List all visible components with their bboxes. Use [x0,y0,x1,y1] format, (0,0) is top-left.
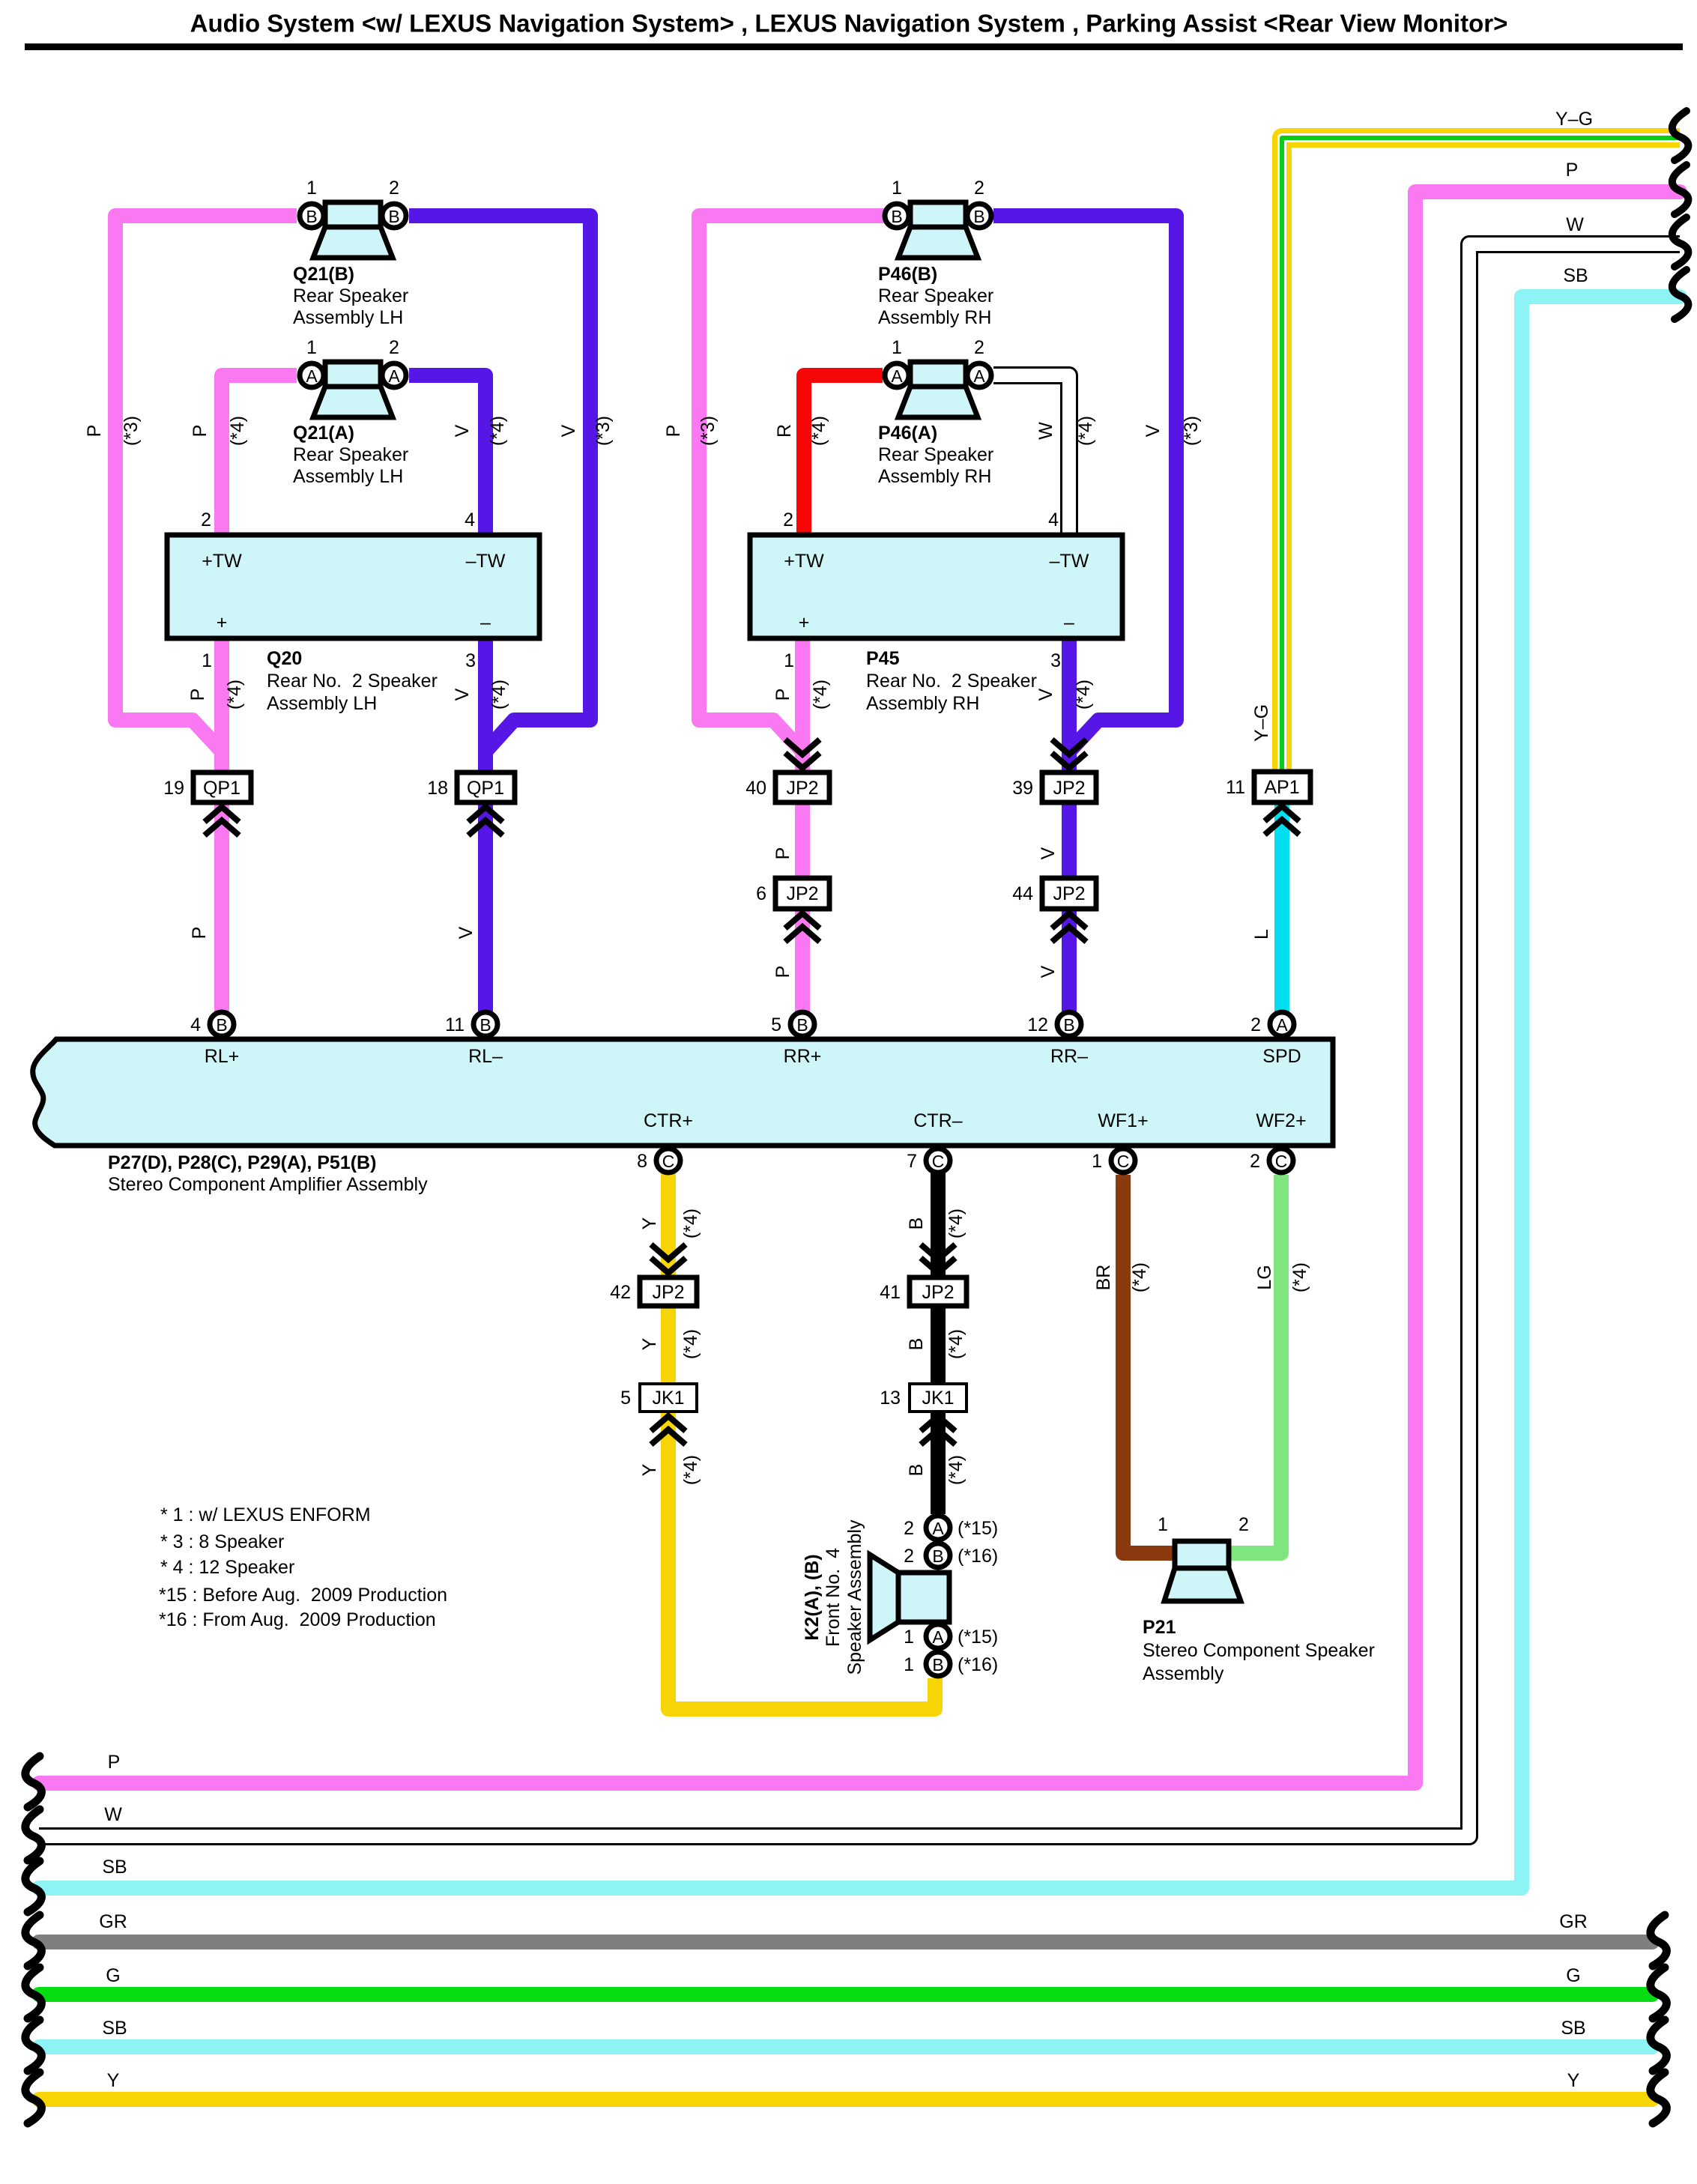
svg-text:JP2: JP2 [786,778,818,799]
svg-text:A: A [1276,1015,1288,1035]
svg-text:L: L [1251,929,1272,940]
svg-text:B: B [306,207,317,226]
svg-text:A: A [973,366,985,386]
svg-text:B: B [216,1015,227,1035]
svg-text:4: 4 [1048,509,1059,530]
wire V Q21(B) to QP1 merge [409,216,590,751]
amp pin 5 RR+ [790,1012,814,1036]
component Q20 Rear No.2 Speaker Assembly LH [167,535,539,638]
svg-text:A: A [306,366,318,386]
connector 5 JK1 (JK1-5) [640,1384,697,1412]
svg-text:Audio System <w/ LEXUS Navigat: Audio System <w/ LEXUS Navigation System… [190,10,1508,37]
svg-text:–: – [1064,612,1074,633]
svg-text:7: 7 [907,1151,917,1172]
break symbol SB left edge [25,2020,42,2071]
svg-text:* 4 : 12 Speaker: * 4 : 12 Speaker [160,1557,294,1578]
wire Y-G top (yellow-green) [1282,138,1680,771]
wire Y bus [39,2092,1652,2107]
svg-text:2: 2 [904,1546,914,1567]
svg-text:Y: Y [107,2070,120,2091]
svg-text:Q21(B): Q21(B) [293,264,354,285]
svg-text:V: V [452,688,473,701]
speaker symbol Q21(B) [300,178,406,258]
title underline bar [25,43,1683,50]
svg-text:1: 1 [904,1654,914,1675]
svg-text:C: C [1275,1152,1288,1171]
svg-text:18: 18 [427,778,448,799]
chevrons below JP2 6 [785,913,820,942]
chevrons below JK1 5 [651,1416,686,1445]
wire V P46(B) to JP2 merge [993,216,1176,751]
svg-text:19: 19 [163,778,184,799]
svg-text:(*4): (*4) [808,416,829,446]
svg-text:B: B [932,1546,943,1566]
speaker symbol P46(A) [885,337,991,417]
svg-text:(*4): (*4) [680,1329,701,1359]
svg-text:2: 2 [201,509,211,530]
svg-text:P: P [84,425,105,438]
svg-text:RL–: RL– [468,1046,503,1067]
svg-text:A: A [388,366,400,386]
svg-text:P45: P45 [866,648,900,669]
break symbol GR left edge [25,1915,42,1966]
connector 44 JP2 (JP2-44) [1042,878,1096,909]
svg-text:P27(D), P28(C), P29(A), P51(B): P27(D), P28(C), P29(A), P51(B) [108,1152,376,1173]
svg-text:*16 : From Aug. 2009 Producti: *16 : From Aug. 2009 Production [159,1609,436,1630]
svg-text:+TW: +TW [202,551,242,572]
svg-text:44: 44 [1012,883,1033,904]
svg-text:Q20: Q20 [267,648,302,669]
svg-text:W: W [1566,214,1584,235]
svg-text:4: 4 [190,1014,201,1035]
svg-text:(*16): (*16) [958,1546,998,1567]
svg-text:V: V [1038,847,1059,859]
chevrons below QP1 18 [468,807,503,835]
chevrons below JP2 44 [1052,913,1086,942]
svg-text:Rear Speaker: Rear Speaker [293,444,408,465]
svg-text:B: B [906,1338,927,1351]
connector 11 AP1 (AP1-11) [1254,772,1310,802]
svg-text:+TW: +TW [784,551,824,572]
svg-text:CTR+: CTR+ [644,1110,693,1131]
svg-text:+: + [799,612,810,633]
svg-text:K2(A), (B): K2(A), (B) [802,1554,823,1640]
svg-text:Assembly LH: Assembly LH [293,307,403,328]
svg-text:C: C [1117,1152,1130,1171]
wire V JP2 39 to JP2 44 [1062,802,1077,878]
svg-text:2: 2 [1250,1014,1261,1035]
wire P QP1 to amp RL+ [214,803,229,1011]
component P45 Rear No.2 Speaker Assembly RH [750,535,1122,638]
break symbol W right top [1672,217,1689,267]
svg-text:8: 8 [637,1151,647,1172]
wire R P46(A) to P45 pin2 [804,375,883,538]
svg-text:P: P [187,689,208,701]
svg-text:V: V [1143,424,1164,437]
amp pin 2 SPD [1270,1012,1294,1036]
wire P JP2 6 to amp RR+ [795,909,810,1011]
svg-text:B: B [973,207,984,226]
svg-text:* 1 : w/ LEXUS ENFORM: * 1 : w/ LEXUS ENFORM [160,1504,371,1525]
svg-text:Y: Y [639,1337,660,1350]
svg-text:P46(A): P46(A) [878,423,937,444]
connector 13 JK1 (JK1-13) [910,1384,967,1412]
svg-text:P46(B): P46(B) [878,264,937,285]
speaker symbol Q21(A) [300,337,406,417]
wire B amp CTR- to K2 [931,1173,946,1514]
break symbol G left edge [25,1967,42,2018]
svg-text:12: 12 [1027,1014,1048,1035]
svg-text:SB: SB [1563,265,1588,286]
amp pin 11 RL&#8211; [474,1012,497,1036]
svg-text:Rear No. 2 Speaker: Rear No. 2 Speaker [267,671,438,692]
break symbol GR right edge [1651,1915,1667,1966]
chevrons below QP1 19 [205,807,239,835]
svg-text:CTR–: CTR– [913,1110,962,1131]
svg-text:Rear No. 2 Speaker: Rear No. 2 Speaker [866,671,1037,692]
svg-text:4: 4 [465,509,475,530]
chevrons above JP2 39 [1052,739,1086,768]
chevrons above JP2 41 [921,1244,955,1273]
svg-text:G: G [1566,1965,1580,1986]
break symbol SB left edge [25,1861,42,1912]
svg-text:3: 3 [1050,650,1061,671]
svg-text:P: P [1566,160,1579,181]
svg-text:LG: LG [1254,1265,1275,1289]
svg-text:JP2: JP2 [652,1282,684,1303]
wire V QP1 to amp RL- [478,803,493,1011]
svg-text:P: P [108,1752,121,1773]
svg-text:JK1: JK1 [922,1388,954,1409]
svg-text:V: V [1035,688,1056,701]
svg-text:Y–G: Y–G [1251,704,1272,742]
svg-text:P: P [189,927,210,940]
svg-text:(*4): (*4) [1073,680,1094,710]
svg-text:C: C [932,1152,945,1171]
svg-text:(*15): (*15) [958,1627,998,1648]
svg-text:JK1: JK1 [652,1388,684,1409]
component amplifier P27(D),P28(C),P29(A),P51(B) Stereo Component Amplifier Assembly [33,1039,1333,1146]
svg-text:(*15): (*15) [958,1518,998,1539]
svg-text:(*4): (*4) [810,680,831,710]
svg-text:SB: SB [1561,2018,1585,2039]
svg-text:V: V [1038,965,1059,978]
svg-text:SB: SB [102,1857,127,1878]
svg-text:Stereo Component Speaker: Stereo Component Speaker [1143,1640,1375,1661]
svg-text:1: 1 [904,1627,914,1648]
svg-text:(*16): (*16) [958,1654,998,1675]
svg-text:P: P [772,847,793,860]
svg-text:(*4): (*4) [488,680,509,710]
wire V Q20 pin3 to QP1 [478,635,493,772]
svg-text:Assembly LH: Assembly LH [267,693,377,714]
svg-text:GR: GR [99,1911,127,1932]
svg-text:5: 5 [771,1014,781,1035]
svg-text:P: P [663,425,684,438]
wire V P45 pin3 to JP2 39 [1062,635,1077,772]
svg-text:(*4): (*4) [1289,1262,1310,1292]
svg-text:B: B [891,207,902,226]
svg-text:(*4): (*4) [946,1329,967,1359]
svg-text:B: B [388,207,399,226]
svg-text:B: B [796,1015,808,1035]
wire L AP1 to amp SPD [1274,802,1289,1011]
svg-text:42: 42 [610,1282,631,1303]
svg-text:41: 41 [880,1282,901,1303]
break symbol SB right top [1672,270,1689,319]
svg-text:(*4): (*4) [946,1209,967,1238]
svg-text:(*4): (*4) [224,680,245,710]
svg-text:V: V [452,424,473,437]
svg-text:V: V [456,926,477,939]
svg-text:Y: Y [639,1463,660,1476]
svg-text:(*3): (*3) [698,416,719,446]
svg-text:GR: GR [1559,1911,1588,1932]
break symbol P left edge [25,1756,42,1807]
svg-text:39: 39 [1012,778,1033,799]
break symbol Y-G right top [1672,111,1689,160]
svg-text:B: B [480,1015,491,1035]
svg-text:(*3): (*3) [1181,416,1202,446]
svg-text:*15 : Before Aug. 2009 Produc: *15 : Before Aug. 2009 Production [159,1585,447,1606]
wire SB bus 2 [39,2039,1652,2054]
svg-text:A: A [891,366,903,386]
svg-text:BR: BR [1093,1265,1114,1291]
svg-text:–: – [480,612,491,633]
svg-text:P: P [772,689,793,701]
wire P Q20 pin1 to QP1 [214,635,229,772]
wire Y amp CTR+ to K2 [668,1173,935,1709]
svg-text:B: B [932,1655,943,1675]
svg-text:Assembly RH: Assembly RH [878,466,991,487]
break symbol Y right edge [1651,2072,1667,2123]
svg-text:RR+: RR+ [784,1046,822,1067]
connector 18 QP1 (QP1-18) [457,772,515,802]
svg-text:B: B [906,1464,927,1477]
svg-text:(*4): (*4) [680,1455,701,1485]
svg-text:Rear Speaker: Rear Speaker [293,285,408,306]
svg-text:5: 5 [620,1388,631,1409]
svg-text:2: 2 [783,509,793,530]
svg-text:W: W [1035,422,1056,440]
svg-text:AP1: AP1 [1264,777,1299,798]
svg-text:2: 2 [974,178,984,199]
svg-text:Y: Y [1567,2070,1580,2091]
wire P Q21(B) to QP1 merge [115,216,297,751]
svg-text:3: 3 [465,650,476,671]
svg-text:11: 11 [445,1014,465,1035]
svg-text:1: 1 [892,337,902,358]
svg-text:1: 1 [1158,1514,1168,1535]
svg-text:1: 1 [1092,1151,1102,1172]
svg-text:(*4): (*4) [1129,1262,1150,1292]
svg-text:Assembly RH: Assembly RH [866,693,979,714]
svg-text:A: A [932,1519,944,1538]
chevrons below AP1 11 [1265,806,1299,835]
svg-text:SB: SB [102,2018,127,2039]
svg-text:P: P [772,966,793,978]
svg-text:–TW: –TW [466,551,506,572]
svg-text:(*4): (*4) [946,1455,967,1485]
svg-text:Front No. 4: Front No. 4 [823,1548,844,1647]
svg-text:JP2: JP2 [922,1282,954,1303]
svg-text:G: G [106,1965,120,1986]
svg-text:Assembly: Assembly [1143,1663,1224,1684]
amp pin 4 RL+ [210,1012,234,1036]
svg-text:QP1: QP1 [467,778,504,799]
svg-text:1: 1 [784,650,794,671]
wire W P46(A) to P45 pin4 (white) [993,375,1069,536]
wire P JP2 40 to JP2 6 [795,802,810,878]
svg-text:1: 1 [202,650,212,671]
svg-text:B: B [906,1217,927,1230]
svg-text:(*4): (*4) [227,416,248,446]
svg-text:Assembly LH: Assembly LH [293,466,403,487]
svg-text:B: B [1063,1015,1074,1035]
svg-text:JP2: JP2 [786,883,818,904]
svg-text:2: 2 [904,1518,914,1539]
svg-text:(*4): (*4) [487,416,508,446]
svg-text:WF2+: WF2+ [1256,1110,1306,1131]
break symbol G right edge [1651,1967,1667,2018]
wire P P45 pin1 to JP2 40 [795,635,810,772]
svg-text:WF1+: WF1+ [1098,1110,1148,1131]
svg-text:A: A [932,1627,944,1647]
speaker K2(A),(B) Front No.4 Speaker Assembly [870,1516,950,1676]
svg-text:C: C [662,1152,675,1171]
chevrons above JP2 40 [785,739,820,768]
connector 40 JP2 (JP2-40) [775,772,829,802]
svg-text:2: 2 [974,337,984,358]
connector 6 JP2 (JP2-6) [775,878,829,909]
svg-text:* 3 : 8 Speaker: * 3 : 8 Speaker [160,1531,284,1552]
svg-text:P21: P21 [1143,1617,1176,1638]
svg-text:Rear Speaker: Rear Speaker [878,444,993,465]
svg-text:V: V [558,424,579,437]
wire G bus [39,1987,1652,2002]
break symbol SB right edge [1651,2020,1667,2071]
svg-text:(*3): (*3) [593,416,614,446]
svg-text:1: 1 [892,178,902,199]
wire P Q21(A) to Q20 pin2 [222,375,297,538]
connector 19 QP1 (QP1-19) [193,772,251,802]
speaker P21 Stereo Component Speaker Assembly [1164,1541,1241,1601]
break symbol Y left edge [25,2072,42,2123]
svg-text:Speaker Assembly: Speaker Assembly [844,1519,865,1675]
wire P P46(B) to JP2 merge [699,216,884,751]
connector 39 JP2 (JP2-39) [1042,772,1096,802]
speaker symbol P46(B) [885,178,991,258]
svg-text:1: 1 [306,337,317,358]
wire V Q21(A) to Q20 pin4 [409,375,485,538]
svg-text:–TW: –TW [1050,551,1089,572]
svg-text:Y: Y [639,1217,660,1229]
chevrons below JK1 13 [921,1416,955,1445]
svg-text:13: 13 [880,1388,901,1409]
wire GR bus [39,1935,1652,1949]
svg-text:Y–G: Y–G [1555,109,1593,130]
svg-text:QP1: QP1 [203,778,241,799]
svg-text:Assembly RH: Assembly RH [878,307,991,328]
wire SB main loop [39,297,1680,1888]
wire BR amp WF1+ to P21 [1123,1175,1178,1553]
wire V JP2 44 to amp RR- [1062,909,1077,1011]
svg-text:P: P [190,425,211,438]
svg-text:W: W [104,1804,122,1825]
svg-text:Stereo Component Amplifier Ass: Stereo Component Amplifier Assembly [108,1174,428,1195]
wire W main loop (white) [39,244,1680,1836]
wire LG amp WF2+ to P21 [1226,1175,1281,1553]
connector 42 JP2 (JP2-42) [640,1277,697,1306]
svg-text:(*4): (*4) [680,1209,701,1238]
svg-text:JP2: JP2 [1053,778,1085,799]
connector 41 JP2 (JP2-41) [910,1277,967,1306]
amp pin 12 RR&#8211; [1057,1012,1081,1036]
break symbol P right top [1672,165,1689,214]
svg-text:+: + [217,612,228,633]
svg-text:11: 11 [1226,777,1245,798]
svg-text:(*3): (*3) [121,416,142,446]
svg-text:(*4): (*4) [1075,416,1096,446]
svg-text:1: 1 [306,178,317,199]
svg-text:JP2: JP2 [1053,883,1085,904]
svg-text:2: 2 [389,337,399,358]
svg-text:40: 40 [745,778,766,799]
svg-text:2: 2 [1238,1514,1249,1535]
svg-text:Rear Speaker: Rear Speaker [878,285,993,306]
svg-text:Q21(A): Q21(A) [293,423,354,444]
svg-text:RL+: RL+ [205,1046,240,1067]
svg-text:SPD: SPD [1262,1046,1301,1067]
chevrons above JP2 42 [651,1244,686,1273]
svg-text:2: 2 [389,178,399,199]
svg-text:R: R [774,424,795,438]
wire P main loop [39,192,1680,1783]
svg-text:6: 6 [756,883,766,904]
svg-text:RR–: RR– [1050,1046,1088,1067]
break symbol W left edge [25,1809,42,1860]
svg-text:2: 2 [1250,1151,1260,1172]
